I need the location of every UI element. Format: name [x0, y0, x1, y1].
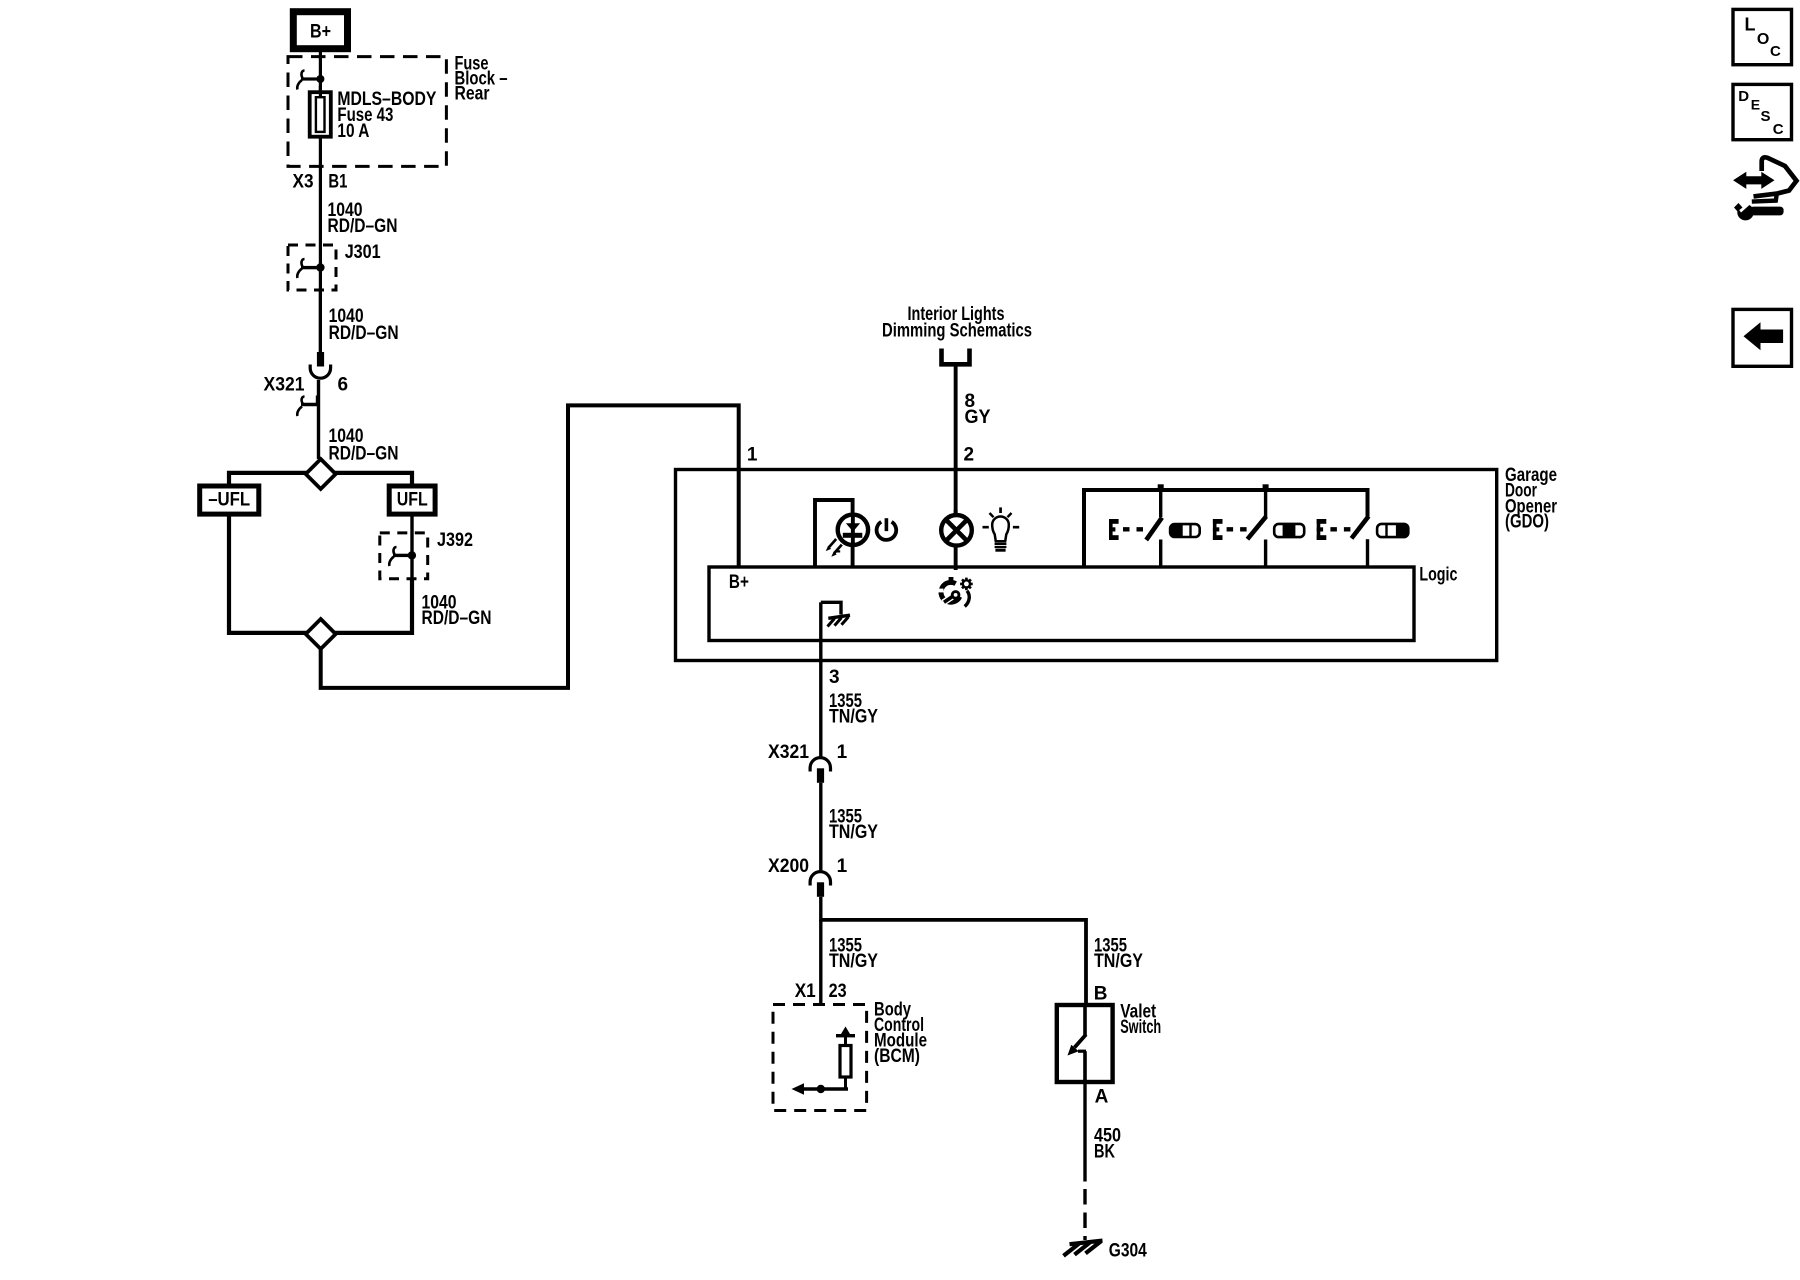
wire label 1040 RD/D-GN (4) — [422, 593, 492, 630]
switch 2 actuator E — [1213, 519, 1247, 540]
splice node diamond (bottom) — [306, 619, 336, 649]
wire label 450 BK — [1094, 1126, 1121, 1163]
wire fuse to J301 — [319, 137, 322, 352]
svg-text:23: 23 — [829, 981, 847, 1002]
BCM internal input arrow — [792, 1083, 849, 1094]
schematic reference icon (arrows + wrench) — [1733, 157, 1796, 201]
svg-text:TN/GY: TN/GY — [829, 822, 878, 843]
label Valet Switch — [1120, 1002, 1161, 1039]
connector X321 pin 1 (socket + pin) — [810, 758, 830, 783]
svg-text:(BCM): (BCM) — [874, 1046, 920, 1067]
wire valet to ground (solid) — [1083, 1082, 1086, 1182]
svg-text:X3: X3 — [293, 172, 314, 193]
svg-text:2: 2 — [964, 445, 975, 466]
splice J301 dashed box — [288, 245, 336, 290]
svg-text:1: 1 — [747, 445, 758, 466]
switch 1 actuator E — [1109, 519, 1143, 540]
svg-text:B1: B1 — [328, 172, 347, 193]
splice J392 dashed box — [380, 533, 428, 579]
Logic box — [709, 567, 1414, 641]
splice J301 terminal tap — [297, 259, 324, 278]
valet switch internals — [1068, 1005, 1087, 1082]
wire diamond to UFL — [335, 473, 412, 486]
wire X200 to split — [819, 897, 822, 922]
Fuse Block - Rear dashed box — [288, 57, 446, 167]
LOC icon box — [1733, 9, 1792, 64]
switch 3 actuator E — [1317, 519, 1351, 540]
wire B+ to fuse — [319, 49, 322, 93]
LED photo arrows — [826, 539, 842, 557]
svg-text:S: S — [1761, 108, 1771, 125]
fuse block terminal tap — [297, 71, 324, 90]
svg-text:B: B — [1094, 984, 1108, 1005]
wire J392 to bottom node — [335, 579, 412, 633]
splice J392 terminal tap — [389, 547, 416, 566]
switch bus top line — [1084, 490, 1368, 567]
svg-text:UFL: UFL — [397, 490, 428, 511]
label Interior Lights Dimming Schematics — [882, 304, 1032, 342]
wire label 1040 RD/D-GN (1) — [328, 200, 398, 237]
power icon — [877, 518, 897, 540]
wire label 1355 TN/GY (2) — [829, 807, 878, 844]
svg-text:Logic: Logic — [1419, 565, 1457, 586]
svg-text:3: 3 — [829, 667, 840, 688]
Fuse Block - Rear label — [455, 54, 508, 105]
wire -UFL down to bottom node — [229, 514, 307, 633]
wire label 8 GY — [965, 391, 991, 428]
svg-text:B+: B+ — [310, 22, 331, 43]
wire bottom node to GDO pin 1 — [321, 405, 739, 688]
X321 terminal tap below — [297, 380, 320, 459]
label Garage Door Opener (GDO) — [1505, 465, 1557, 533]
svg-text:O: O — [1757, 31, 1769, 48]
wire dashed to ground — [1083, 1189, 1086, 1240]
wire split to valet switch — [821, 920, 1086, 1005]
wire bracket to GDO pin 2 — [954, 364, 958, 514]
pin labels X1 23 — [795, 981, 847, 1002]
svg-text:G304: G304 — [1109, 1241, 1147, 1262]
svg-text:6: 6 — [338, 375, 349, 396]
UFL option box — [389, 486, 435, 514]
wire X321 to X200 — [819, 783, 822, 870]
Valet Switch box — [1057, 1005, 1113, 1082]
svg-text:C: C — [1770, 43, 1781, 60]
svg-text:RD/D–GN: RD/D–GN — [329, 444, 399, 465]
switch 3 — [1352, 516, 1369, 567]
wire label 1040 RD/D-GN (2) — [329, 306, 399, 344]
svg-text:C: C — [1773, 121, 1784, 138]
svg-text:Rear: Rear — [455, 84, 491, 105]
svg-text:TN/GY: TN/GY — [829, 707, 878, 728]
svg-text:10 A: 10 A — [337, 121, 369, 142]
labels X200 1 — [768, 856, 848, 877]
svg-text:RD/D–GN: RD/D–GN — [328, 216, 398, 237]
svg-text:L: L — [1745, 15, 1756, 35]
lamp symbol (circle with X) — [941, 510, 972, 570]
svg-text:J392: J392 — [437, 530, 473, 551]
svg-text:1: 1 — [837, 856, 848, 877]
labels X321 6 — [264, 375, 349, 396]
svg-text:1: 1 — [837, 742, 848, 763]
wire pin3 down from ground tap — [819, 602, 822, 757]
svg-text:(GDO): (GDO) — [1505, 512, 1549, 533]
svg-text:X321: X321 — [768, 742, 809, 763]
wire label 1355 TN/GY (3) — [829, 936, 878, 973]
off-page connector bracket — [942, 349, 970, 365]
B+ power symbol — [293, 12, 347, 49]
svg-text:X200: X200 — [768, 856, 809, 877]
position pill 2 (middle filled) — [1274, 524, 1304, 537]
label Body Control Module (BCM) — [874, 1000, 927, 1068]
LED branch wires — [815, 500, 853, 567]
DESC icon box — [1733, 84, 1792, 139]
svg-text:B+: B+ — [729, 572, 749, 593]
switch 2 — [1247, 490, 1266, 567]
GDO outer box — [676, 470, 1497, 661]
bus junction nubs — [1158, 484, 1164, 490]
wire label 1355 TN/GY (4) — [1094, 936, 1143, 973]
svg-text:X321: X321 — [264, 375, 305, 396]
wrench part of icon — [1734, 198, 1784, 220]
svg-text:A: A — [1095, 1087, 1109, 1108]
svg-text:RD/D–GN: RD/D–GN — [329, 323, 399, 344]
splice node diamond (top) — [306, 459, 336, 489]
wire UFL down to J392 — [410, 514, 413, 579]
back arrow icon box — [1733, 309, 1792, 366]
svg-text:RD/D–GN: RD/D–GN — [422, 608, 492, 629]
svg-text:D: D — [1738, 88, 1749, 105]
connector X321 pin 6 (pin + socket) — [310, 352, 330, 378]
pin labels X3 B1 — [293, 172, 348, 193]
svg-text:TN/GY: TN/GY — [829, 951, 878, 972]
svg-text:Dimming Schematics: Dimming Schematics — [882, 321, 1032, 342]
fuse MDLS-BODY Fuse 43 10A — [310, 86, 331, 137]
labels X321 1 — [768, 742, 848, 763]
LED indicator (photo diode circle) — [838, 514, 868, 546]
svg-text:E: E — [1751, 96, 1760, 112]
svg-text:Switch: Switch — [1120, 1017, 1161, 1038]
position pill 1 (left filled) — [1170, 524, 1200, 537]
svg-text:TN/GY: TN/GY — [1094, 951, 1143, 972]
wire label 1040 RD/D-GN (3) — [329, 426, 399, 465]
svg-text:X1: X1 — [795, 981, 816, 1002]
gauge with gear icon — [938, 577, 972, 606]
wire J301 to X321 — [319, 290, 322, 352]
light bulb icon — [983, 507, 1020, 551]
fuse label MDLS-BODY Fuse 43 10 A — [337, 89, 436, 142]
wire label 1355 TN/GY (1) — [829, 691, 878, 728]
svg-text:GY: GY — [965, 407, 991, 428]
wire diamond to -UFL — [229, 473, 307, 486]
connector X200 pin 1 (socket + pin) — [810, 872, 830, 897]
-UFL option box — [200, 486, 259, 514]
internal ground tap — [821, 602, 850, 626]
ground G304 — [1064, 1241, 1103, 1256]
BCM dashed box — [773, 1005, 867, 1111]
BCM pull-up resistor — [836, 1027, 855, 1090]
svg-text:BK: BK — [1094, 1142, 1115, 1163]
switch 1 — [1146, 490, 1162, 567]
position pill 3 (right filled) — [1377, 524, 1408, 537]
wire split down to BCM — [819, 920, 822, 1005]
svg-text:–UFL: –UFL — [208, 490, 250, 511]
svg-text:J301: J301 — [345, 242, 381, 263]
